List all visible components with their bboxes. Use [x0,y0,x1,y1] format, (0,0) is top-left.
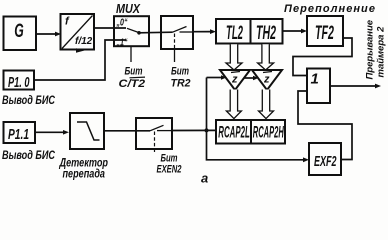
svg-text:G: G [14,21,24,42]
svg-text:P1. 0: P1. 0 [8,74,30,91]
svg-text:P1.1: P1.1 [8,126,29,143]
wire TF2 to OR gate [293,38,352,76]
wire left comparator to right comparator [244,76,259,81]
bus arrow TH2 to comparator [258,44,274,70]
wire TH2 to TF2 with arrow [283,29,308,34]
flag EXF2 [309,143,341,175]
bus arrow TL2 to comparator [226,44,242,70]
wire OR output interrupt arrow [330,84,381,89]
svg-text:MUX: MUX [116,2,141,16]
svg-text:Переполнение: Переполнение [284,3,376,15]
wire junction up to comparator [206,78,208,131]
register RCAP2H [251,120,285,144]
wire MUX output to switch TR2 [139,31,173,34]
svg-text:Вывод БИС: Вывод БИС [2,95,56,107]
bit C/T2 select line [119,47,146,91]
label bit EXEN2 [157,153,182,176]
label Preryvanie taimera 2 (timer 2 interrupt, rotated) [365,19,387,79]
svg-text:RCAP2L: RCAP2L [218,123,250,142]
port P1.1 [4,122,36,143]
wire P1.0 to MUX input 1 [34,40,126,80]
wire EXEN2 to RCAP2L with junction [172,128,216,132]
edge detector [70,113,104,149]
wire detector to switch EXEN2 [104,130,150,132]
wire P1.1 to edge detector [35,130,69,135]
register TH2 [251,19,283,44]
svg-text:„0“: „0“ [116,18,128,29]
switch TR2 [161,16,193,62]
svg-text:Бит: Бит [171,65,189,77]
svg-text:f/12: f/12 [75,36,93,47]
register TL2 [216,19,251,44]
register RCAP2L [216,120,251,144]
label bit TR2 [171,65,191,89]
mux MUX [114,2,149,49]
divider f/12 U1 [61,14,95,53]
generator G [4,17,37,51]
wire G to divider [36,32,61,37]
bus arrow comparator to RCAP2L [226,90,241,119]
switch EXEN2 [136,118,172,152]
svg-text:1: 1 [311,71,319,88]
wire divider to MUX input 0 [94,27,126,29]
svg-text:Прерывание: Прерывание [365,19,376,79]
svg-text:C/T2: C/T2 [119,78,146,90]
wire capture trigger to left comparator [207,75,227,80]
svg-text:f: f [65,16,70,28]
label Detektor perepada [59,157,108,180]
svg-text:z: z [231,74,238,86]
svg-text:RCAP2H: RCAP2H [253,123,284,142]
or-gate 1 [307,69,330,104]
wire EXF2 to OR gate [298,91,352,160]
svg-text:EXF2: EXF2 [314,154,337,170]
flag TF2 [307,16,343,46]
comparator left [220,70,250,90]
port P1.0 [4,71,35,92]
bus arrow comparator to RCAP2H [259,90,274,119]
svg-text:Вывод БИС: Вывод БИС [2,150,56,162]
svg-text:перепада: перепада [63,168,106,180]
svg-text:Бит: Бит [161,153,178,165]
svg-text:TL2: TL2 [226,23,243,44]
svg-text:z: z [263,74,270,86]
wire junction down to EXF2 [207,130,310,162]
svg-text:TH2: TH2 [256,23,276,44]
wire TR2 to TL2 with arrow [193,29,216,34]
svg-text:а: а [201,171,208,186]
svg-text:таймера 2: таймера 2 [376,26,387,78]
svg-text:EXEN2: EXEN2 [157,164,182,176]
svg-text:TR2: TR2 [171,78,191,90]
svg-text:TF2: TF2 [315,23,334,44]
comparator right [252,70,282,90]
svg-text:Бит: Бит [125,65,143,77]
